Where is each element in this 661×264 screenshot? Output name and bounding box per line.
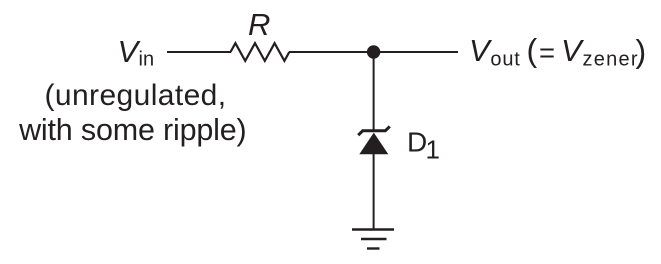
wire: Vin lead (left horizontal) <box>167 51 231 53</box>
zener diode D1 cathode bar <box>358 126 390 135</box>
svg-text:1: 1 <box>426 134 440 164</box>
node junction dot <box>367 45 380 58</box>
svg-text:in: in <box>139 49 155 71</box>
ground <box>352 230 394 249</box>
wire: zener to ground <box>373 154 375 230</box>
svg-text:(unregulated,: (unregulated, <box>45 79 227 112</box>
wire: node down to zener <box>373 52 375 131</box>
svg-text:V: V <box>469 33 493 68</box>
svg-text:out: out <box>490 49 520 71</box>
wire: node to Vout (right horizontal) <box>289 51 458 53</box>
zener diode D1 anode triangle <box>359 133 388 155</box>
svg-text:D: D <box>407 127 427 158</box>
svg-text:zener: zener <box>583 49 639 71</box>
svg-text:R: R <box>248 7 270 42</box>
svg-text:with some ripple): with some ripple) <box>18 113 246 147</box>
svg-text:): ) <box>636 34 647 70</box>
svg-text:V: V <box>561 33 585 68</box>
svg-text:=: = <box>539 37 555 68</box>
svg-text:(: ( <box>527 33 538 69</box>
resistor R <box>231 43 290 61</box>
